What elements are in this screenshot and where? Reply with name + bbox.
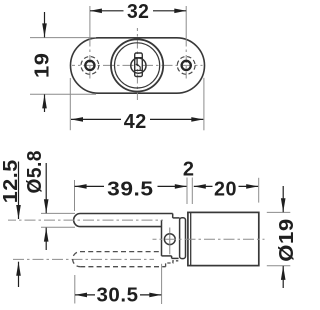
svg-text:30.5: 30.5: [97, 284, 139, 306]
svg-text:2: 2: [183, 158, 195, 180]
svg-text:20: 20: [214, 178, 237, 200]
svg-text:32: 32: [127, 1, 150, 23]
svg-text:12.5: 12.5: [0, 159, 22, 203]
svg-text:Ø19: Ø19: [276, 218, 298, 262]
svg-text:42: 42: [124, 111, 147, 133]
svg-text:19: 19: [31, 52, 53, 78]
svg-text:39.5: 39.5: [107, 178, 154, 200]
svg-text:Ø5.8: Ø5.8: [24, 150, 46, 194]
